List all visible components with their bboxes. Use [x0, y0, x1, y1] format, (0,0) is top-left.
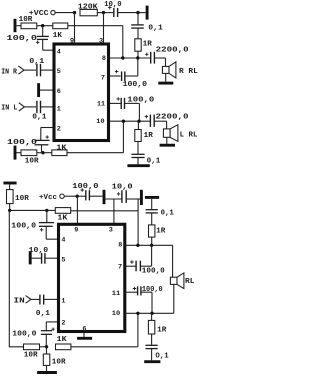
ground (bar) under 10R	[37, 365, 57, 372]
svg-text:0,1: 0,1	[29, 58, 44, 66]
ground (plate) ch L feedback	[15, 146, 21, 160]
svg-text:6: 6	[57, 88, 61, 96]
svg-text:10,0: 10,0	[112, 183, 134, 191]
resistor 1R (Zobel bottom)	[149, 213, 166, 237]
capacitor 100,0 at pin 11 (bootstrap ch L)	[110, 96, 155, 121]
wire 1R to pin 8 rail	[151, 237, 153, 245]
capacitor 2200,0 (out ch R)	[145, 47, 189, 64]
svg-text:10R: 10R	[52, 359, 66, 367]
input IN	[14, 296, 40, 306]
svg-text:10: 10	[96, 118, 105, 126]
pin 11 label (bottom IC)	[112, 290, 121, 298]
input IN L	[1, 103, 36, 113]
wire 1K to node	[43, 152, 52, 154]
pin 10 label (bottom IC)	[112, 310, 121, 318]
svg-text:5: 5	[57, 68, 61, 76]
svg-text:4: 4	[61, 237, 65, 245]
svg-text:120K: 120K	[78, 4, 98, 12]
resistor 10R (ch L feedback)	[21, 150, 43, 166]
svg-text:O,1: O,1	[155, 353, 169, 361]
node pin8/zobel	[136, 56, 139, 59]
pin 3 label	[99, 37, 103, 45]
node pin 3	[102, 11, 105, 14]
resistor 1K (upper)	[55, 208, 70, 223]
pin 1 label (bottom IC)	[61, 298, 65, 306]
svg-text:0,1: 0,1	[32, 113, 47, 121]
ground (plate) at SVR cap	[138, 6, 147, 20]
op-amp IC U1 (top, stereo power amplifier)	[54, 44, 109, 141]
resistor 1R (Zobel ch R)	[135, 28, 152, 51]
ground (plate) at pin 5 cap	[30, 251, 41, 264]
resistor 10R (upper, to node A)	[7, 190, 30, 204]
ground (plate) decoupling	[103, 190, 106, 204]
svg-text:3: 3	[99, 37, 103, 45]
svg-text:1K: 1K	[57, 336, 67, 344]
node pin8/bootstrap	[136, 244, 139, 247]
wire cap to pin 2	[41, 128, 54, 141]
svg-text:L RL: L RL	[180, 132, 198, 140]
capacitor 0,1 (Zobel bottom)	[146, 209, 175, 217]
svg-text:100,0: 100,0	[72, 183, 99, 191]
capacitor 100,0 at pin 11 (bottom)	[125, 286, 163, 313]
node pin10/feedback (bottom)	[136, 312, 139, 315]
wire node A to node B	[10, 209, 47, 211]
svg-text:6: 6	[82, 325, 86, 333]
svg-text:0,1: 0,1	[148, 25, 163, 33]
pin 7 label (bottom IC)	[118, 264, 122, 272]
pin 10 label	[96, 118, 105, 126]
svg-text:11: 11	[112, 290, 121, 298]
capacitor 100,0 at pin 4 (node B)	[11, 210, 54, 231]
wire 1K to riser	[68, 25, 123, 27]
svg-text:1R: 1R	[156, 228, 166, 236]
pin 11 label	[97, 101, 105, 109]
capacitor 100,0 supply decoupling	[72, 183, 102, 201]
node pin10/feedback	[122, 120, 125, 123]
svg-text:1K: 1K	[56, 144, 66, 152]
wire 1K to pin 10 rail riser	[71, 313, 138, 347]
svg-text:100,0: 100,0	[11, 223, 36, 231]
speaker L RL	[163, 121, 197, 141]
wire 120K to pin 3 node	[97, 12, 103, 14]
resistor 10R (horizontal, to left rail)	[24, 344, 47, 359]
ground at pin 6 (bottom IC)	[77, 333, 92, 338]
pin 9 label (bottom IC)	[74, 227, 78, 235]
svg-text:+VCC: +VCC	[29, 10, 49, 18]
ground (bar) Zobel ch L	[127, 158, 149, 166]
node Vcc	[76, 195, 79, 198]
svg-text:0,1: 0,1	[161, 209, 175, 217]
pin 5 label	[57, 68, 61, 76]
svg-text:100,0: 100,0	[123, 81, 148, 89]
wire 1K to riser pin 3 and bootstrap riser	[71, 210, 138, 212]
svg-text:8: 8	[102, 55, 106, 63]
capacitor 0,1 (Zobel ch L)	[131, 142, 160, 166]
wire 10R to 1K	[37, 25, 53, 27]
svg-text:2: 2	[61, 320, 65, 328]
svg-text:1: 1	[57, 106, 61, 114]
pin 2 label (bottom IC)	[61, 320, 65, 328]
ground (plate) at pin 6	[39, 83, 54, 97]
wire pin 9 riser	[74, 13, 76, 43]
wire pin 8 rail (bottom)	[125, 244, 173, 246]
wire left rail (node A down)	[9, 210, 23, 346]
pin 1 label	[57, 106, 61, 114]
node VCC / pin 9	[73, 11, 76, 14]
svg-text:IN: IN	[14, 297, 26, 305]
svg-text:1R: 1R	[157, 326, 167, 334]
pin 5 label (bottom IC)	[61, 257, 65, 265]
svg-text:3: 3	[109, 227, 113, 235]
pin 7 label	[101, 75, 105, 83]
wire speaker to pin 10 rail	[173, 284, 175, 313]
svg-text:10: 10	[112, 310, 121, 318]
svg-text:8: 8	[118, 241, 122, 249]
node pin10/zobel (bottom)	[150, 312, 153, 315]
wire pin 10 rail (bottom)	[125, 312, 174, 314]
resistor 120K	[78, 4, 98, 16]
svg-text:2200,0: 2200,0	[156, 113, 190, 121]
capacitor 0,1 input L	[32, 101, 53, 122]
wire pin 3 riser	[113, 199, 115, 223]
svg-text:5: 5	[61, 257, 65, 265]
resistor 1K (ch L feedback)	[52, 144, 67, 155]
pin 3 label (bottom IC)	[109, 227, 113, 235]
pin 6 label (bottom IC)	[82, 325, 86, 333]
ground (bar) top-left	[3, 183, 16, 190]
pin 6 label	[57, 88, 61, 96]
svg-text:10R: 10R	[25, 157, 39, 165]
wire cap to pin 4	[46, 226, 57, 239]
capacitor 100,0 at pin 7 (bottom)	[125, 245, 165, 275]
capacitor 100,0 at pin 7 (bootstrap ch R)	[110, 58, 148, 89]
pin 8 label	[102, 55, 106, 63]
svg-text:1K: 1K	[57, 214, 67, 222]
wire node B to 1K	[47, 209, 56, 211]
wire 10R to node A	[9, 204, 11, 211]
svg-text:9: 9	[74, 227, 78, 235]
svg-text:1: 1	[61, 298, 65, 306]
svg-text:10R: 10R	[24, 351, 38, 359]
speaker R RL	[162, 58, 198, 78]
svg-text:7: 7	[101, 75, 105, 83]
pin 4 label	[57, 49, 61, 57]
ground (bar) output Zobel bottom	[144, 349, 160, 362]
speaker RL (bridge)	[170, 245, 195, 288]
node pin10/zobel	[137, 120, 140, 123]
pin 9 label	[70, 37, 74, 45]
wire riser feedback to pin8 rail	[122, 26, 124, 58]
capacitor 0,1 (output Zobel bottom)	[146, 334, 170, 361]
capacitor 100,0 at pin 2	[12, 322, 57, 338]
wire Vcc to pin 9 node	[64, 195, 77, 197]
pin 8 label (bottom IC)	[118, 241, 122, 249]
resistor 1R (output Zobel bottom)	[148, 313, 166, 334]
wire 1R to pin8 rail	[137, 51, 139, 58]
wire feedback ch L riser	[67, 121, 123, 153]
svg-text:1R: 1R	[144, 132, 154, 140]
svg-text:IN R: IN R	[1, 68, 17, 76]
capacitor 10,0 bootstrap	[106, 183, 140, 203]
svg-text:100,0: 100,0	[7, 35, 38, 43]
capacitor 2200,0 (out ch L)	[145, 113, 189, 127]
wire pin 3 riser	[103, 13, 105, 43]
svg-text:4: 4	[57, 49, 61, 57]
svg-text:R RL: R RL	[179, 68, 198, 76]
svg-text:RL: RL	[185, 278, 195, 286]
wire VCC to pin 9 node	[55, 12, 74, 14]
capacitor 0,1 (Zobel ch R)	[131, 13, 163, 33]
op-amp IC U2 (bottom, bridge amplifier)	[59, 224, 125, 331]
wire pin 9 riser	[76, 196, 78, 223]
capacitor 100,0 at pin 2	[7, 135, 50, 152]
wire pin 10 output rail	[110, 120, 150, 122]
node pin8/zobel	[150, 244, 153, 247]
node (junction dot) feedback R	[41, 24, 44, 27]
svg-text:11: 11	[97, 101, 105, 109]
ground (bar) Zobel bottom	[145, 197, 159, 209]
capacitor 0,1 input	[36, 295, 58, 318]
ground (bar) under speaker R	[158, 73, 173, 83]
resistor 10R (ch R feedback)	[19, 16, 37, 29]
svg-text:1K: 1K	[53, 32, 63, 40]
svg-text:100,0: 100,0	[7, 139, 38, 147]
node feedback (bottom)	[45, 345, 48, 348]
capacitor 100,0 at pin 4	[7, 27, 49, 44]
node A	[8, 209, 11, 212]
svg-text:100,0: 100,0	[127, 96, 155, 104]
node feedback ch L	[41, 151, 44, 154]
pin 4 label (bottom IC)	[61, 237, 65, 245]
ground (plate) at feedback R network channel R	[14, 19, 17, 32]
pin 2 label	[57, 126, 61, 134]
resistor 1R (Zobel ch L)	[135, 121, 153, 141]
svg-text:10,0: 10,0	[29, 247, 49, 255]
resistor 1K (bottom feedback)	[56, 336, 71, 350]
svg-text:10,0: 10,0	[104, 1, 122, 9]
resistor 10R (vertical, to ground)	[43, 347, 66, 367]
node SVR cap / ground	[136, 11, 139, 14]
+VCC terminal	[29, 10, 55, 18]
wire pin 8 output rail	[110, 57, 151, 59]
plate bar at bootstrap cap	[140, 190, 143, 205]
wire cap pin2 to feedback node	[45, 334, 47, 347]
svg-text:10R: 10R	[15, 195, 29, 203]
resistor 1K (ch R feedback)	[53, 23, 68, 40]
capacitor 0,1 input R	[29, 58, 53, 76]
capacitor 10,0 (SVR)	[104, 1, 139, 17]
svg-text:7: 7	[118, 264, 122, 272]
node pin8/feedback	[121, 56, 124, 59]
wire bootstrap to output rail (riser)	[137, 199, 139, 245]
capacitor 10,0 at pin 5	[29, 247, 58, 264]
ground (bar) under speaker L	[160, 137, 175, 145]
svg-text:IN L: IN L	[1, 105, 18, 113]
svg-text:100,0: 100,0	[142, 268, 165, 276]
+Vcc terminal	[39, 194, 64, 202]
svg-text:0,1: 0,1	[36, 310, 51, 318]
svg-text:100,0: 100,0	[12, 330, 37, 338]
wire cap to pin 4	[43, 39, 54, 50]
svg-text:1R: 1R	[143, 40, 153, 48]
svg-text:+Vcc: +Vcc	[39, 194, 57, 202]
wire ground to R 10R	[15, 25, 21, 27]
svg-text:100,0: 100,0	[142, 286, 163, 294]
input IN R	[1, 66, 36, 76]
node B	[45, 209, 48, 212]
svg-text:2200,0: 2200,0	[156, 47, 190, 55]
svg-text:2: 2	[57, 126, 61, 134]
svg-text:9: 9	[70, 37, 74, 45]
